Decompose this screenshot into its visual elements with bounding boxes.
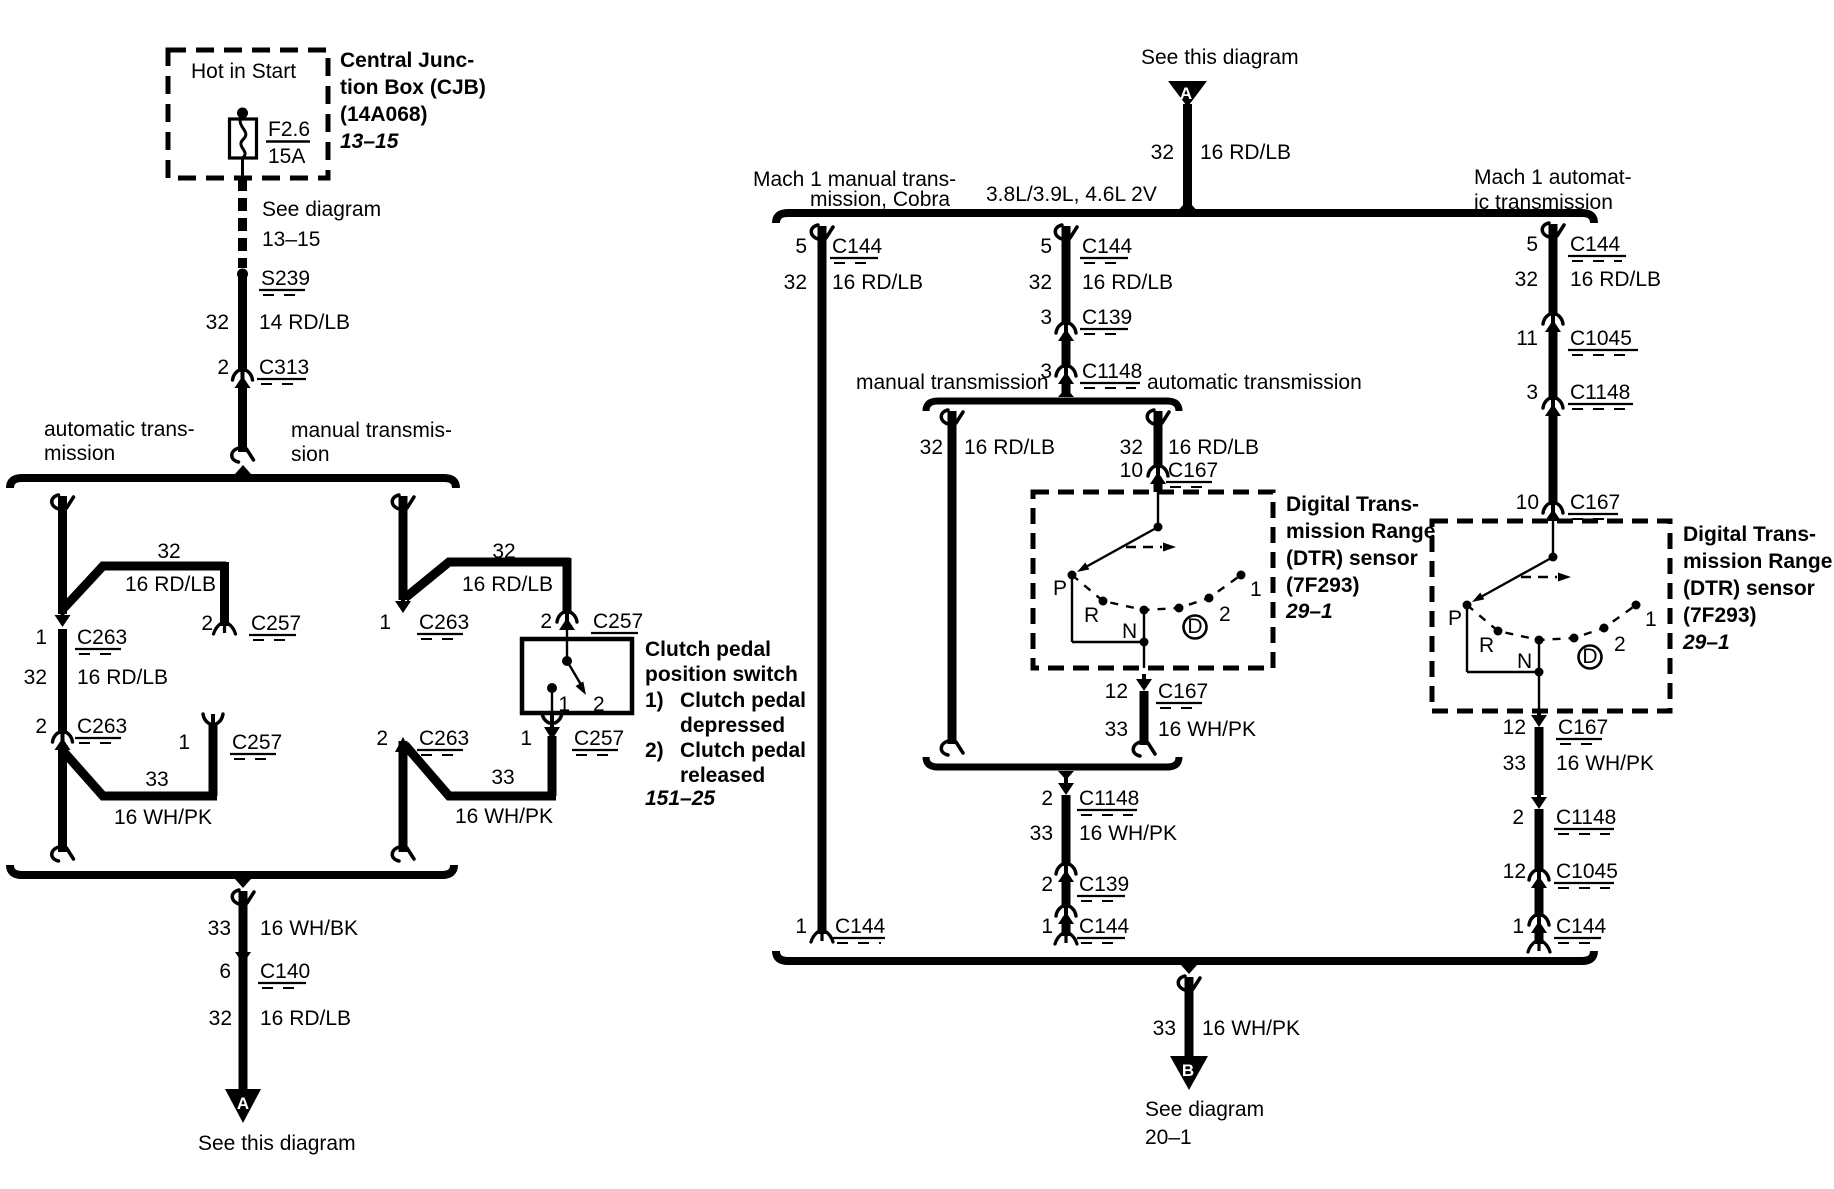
svg-text:Hot in Start: Hot in Start <box>191 60 296 83</box>
svg-text:C257: C257 <box>232 731 282 754</box>
svg-text:29–1: 29–1 <box>1682 631 1730 654</box>
svg-text:B: B <box>1182 1061 1194 1080</box>
svg-text:33: 33 <box>491 766 514 789</box>
svg-text:15A: 15A <box>268 145 305 168</box>
svg-text:C1045: C1045 <box>1570 327 1632 350</box>
svg-text:C167: C167 <box>1558 716 1608 739</box>
svg-text:13–15: 13–15 <box>340 130 399 153</box>
svg-text:Clutch pedal: Clutch pedal <box>680 689 806 712</box>
svg-text:C1148: C1148 <box>1570 381 1630 404</box>
svg-text:Digital Trans-: Digital Trans- <box>1286 493 1419 516</box>
svg-text:1: 1 <box>520 727 532 750</box>
svg-text:D: D <box>1187 615 1202 638</box>
svg-text:C144: C144 <box>1570 233 1621 256</box>
svg-text:32: 32 <box>492 540 515 563</box>
svg-text:S239: S239 <box>261 267 310 290</box>
svg-text:32: 32 <box>209 1007 232 1030</box>
svg-text:32: 32 <box>1515 268 1538 291</box>
svg-text:automatic transmission: automatic transmission <box>1147 371 1362 394</box>
svg-text:16 RD/LB: 16 RD/LB <box>1082 271 1173 294</box>
svg-text:Digital Trans-: Digital Trans- <box>1683 523 1816 546</box>
svg-text:C167: C167 <box>1158 680 1208 703</box>
svg-text:2: 2 <box>1041 873 1053 896</box>
svg-text:12: 12 <box>1105 680 1128 703</box>
svg-text:3.8L/3.9L, 4.6L 2V: 3.8L/3.9L, 4.6L 2V <box>986 183 1157 206</box>
svg-text:11: 11 <box>1516 327 1538 350</box>
svg-text:16 RD/LB: 16 RD/LB <box>125 573 216 596</box>
svg-text:1: 1 <box>379 611 391 634</box>
svg-text:32: 32 <box>1120 436 1143 459</box>
svg-text:32: 32 <box>784 271 807 294</box>
svg-text:(DTR) sensor: (DTR) sensor <box>1286 547 1418 570</box>
svg-text:1: 1 <box>1250 578 1262 601</box>
svg-text:32: 32 <box>1151 141 1174 164</box>
svg-text:32: 32 <box>24 666 47 689</box>
svg-text:C1045: C1045 <box>1556 860 1618 883</box>
svg-text:mission Range: mission Range <box>1286 520 1435 543</box>
svg-text:P: P <box>1448 607 1462 630</box>
svg-text:See this diagram: See this diagram <box>1141 46 1299 69</box>
svg-text:2: 2 <box>35 715 47 738</box>
svg-text:33: 33 <box>145 768 168 791</box>
svg-text:32: 32 <box>1029 271 1052 294</box>
svg-text:manual transmission: manual transmission <box>856 371 1049 394</box>
svg-text:Clutch pedal: Clutch pedal <box>645 638 771 661</box>
svg-text:position switch: position switch <box>645 663 798 686</box>
svg-text:32: 32 <box>920 436 943 459</box>
svg-text:(7F293): (7F293) <box>1683 604 1757 627</box>
svg-text:33: 33 <box>1105 718 1128 741</box>
svg-text:10: 10 <box>1516 491 1539 514</box>
svg-text:16 RD/LB: 16 RD/LB <box>1168 436 1259 459</box>
svg-text:C144: C144 <box>1082 235 1133 258</box>
svg-text:33: 33 <box>1153 1017 1176 1040</box>
svg-text:33: 33 <box>208 917 231 940</box>
svg-text:Central Junc-: Central Junc- <box>340 49 474 72</box>
svg-text:16 RD/LB: 16 RD/LB <box>77 666 168 689</box>
svg-text:C257: C257 <box>251 612 301 635</box>
svg-text:C144: C144 <box>1079 915 1130 938</box>
svg-text:16 WH/PK: 16 WH/PK <box>114 806 212 829</box>
svg-text:16 RD/LB: 16 RD/LB <box>260 1007 351 1030</box>
svg-text:16 RD/LB: 16 RD/LB <box>462 573 553 596</box>
svg-text:6: 6 <box>219 960 231 983</box>
svg-text:C263: C263 <box>77 715 127 738</box>
svg-text:C263: C263 <box>419 611 469 634</box>
svg-text:N: N <box>1122 620 1137 643</box>
svg-text:2: 2 <box>1614 633 1626 656</box>
svg-text:C144: C144 <box>835 915 886 938</box>
svg-text:depressed: depressed <box>680 714 785 737</box>
svg-text:2: 2 <box>593 693 605 716</box>
svg-text:A: A <box>237 1094 249 1113</box>
svg-text:33: 33 <box>1030 822 1053 845</box>
svg-text:released: released <box>680 764 765 787</box>
svg-text:automatic trans-: automatic trans- <box>44 418 195 441</box>
svg-text:12: 12 <box>1503 860 1526 883</box>
svg-text:mission Range: mission Range <box>1683 550 1832 573</box>
svg-text:16 RD/LB: 16 RD/LB <box>1570 268 1661 291</box>
svg-text:C144: C144 <box>1556 915 1607 938</box>
svg-text:sion: sion <box>291 443 330 466</box>
svg-text:5: 5 <box>1040 235 1052 258</box>
svg-text:R: R <box>1084 604 1099 627</box>
svg-text:C1148: C1148 <box>1556 806 1616 829</box>
svg-text:C140: C140 <box>260 960 310 983</box>
svg-text:C313: C313 <box>259 356 309 379</box>
svg-text:C139: C139 <box>1082 306 1132 329</box>
svg-text:D: D <box>1582 645 1597 668</box>
svg-text:33: 33 <box>1503 752 1526 775</box>
svg-text:29–1: 29–1 <box>1285 600 1333 623</box>
svg-text:2): 2) <box>645 739 664 762</box>
svg-text:1: 1 <box>35 626 47 649</box>
svg-text:2: 2 <box>1041 787 1053 810</box>
svg-text:16 WH/PK: 16 WH/PK <box>1079 822 1177 845</box>
svg-text:mission: mission <box>44 442 115 465</box>
svg-text:A: A <box>1180 84 1192 103</box>
svg-text:2: 2 <box>376 727 388 750</box>
svg-text:1: 1 <box>558 693 570 716</box>
svg-text:See diagram: See diagram <box>262 198 381 221</box>
svg-text:See diagram: See diagram <box>1145 1098 1264 1121</box>
svg-text:16 RD/LB: 16 RD/LB <box>1200 141 1291 164</box>
svg-text:C167: C167 <box>1168 459 1218 482</box>
svg-text:5: 5 <box>795 235 807 258</box>
svg-text:2: 2 <box>1219 603 1231 626</box>
svg-text:F2.6: F2.6 <box>268 118 310 141</box>
svg-text:(DTR) sensor: (DTR) sensor <box>1683 577 1815 600</box>
svg-text:C263: C263 <box>77 626 127 649</box>
svg-text:(14A068): (14A068) <box>340 103 428 126</box>
svg-text:mission, Cobra: mission, Cobra <box>810 188 950 211</box>
svg-text:C144: C144 <box>832 235 883 258</box>
svg-text:16 WH/PK: 16 WH/PK <box>1158 718 1256 741</box>
svg-text:C257: C257 <box>574 727 624 750</box>
svg-text:14 RD/LB: 14 RD/LB <box>259 311 350 334</box>
svg-text:C1148: C1148 <box>1079 787 1139 810</box>
svg-text:12: 12 <box>1503 716 1526 739</box>
svg-text:16 RD/LB: 16 RD/LB <box>964 436 1055 459</box>
svg-text:32: 32 <box>157 540 180 563</box>
svg-text:2: 2 <box>201 612 213 635</box>
svg-text:16 WH/PK: 16 WH/PK <box>455 805 553 828</box>
svg-text:Clutch pedal: Clutch pedal <box>680 739 806 762</box>
svg-text:16 WH/PK: 16 WH/PK <box>1202 1017 1300 1040</box>
svg-text:20–1: 20–1 <box>1145 1126 1192 1149</box>
svg-text:(7F293): (7F293) <box>1286 574 1360 597</box>
svg-text:151–25: 151–25 <box>645 787 715 810</box>
svg-text:manual transmis-: manual transmis- <box>291 419 452 442</box>
svg-text:1: 1 <box>1041 915 1053 938</box>
svg-text:1: 1 <box>178 731 190 754</box>
svg-text:Mach 1 automat-: Mach 1 automat- <box>1474 166 1632 189</box>
svg-text:3: 3 <box>1526 381 1538 404</box>
svg-text:C1148: C1148 <box>1082 360 1142 383</box>
svg-text:C263: C263 <box>419 727 469 750</box>
svg-text:2: 2 <box>1512 806 1524 829</box>
svg-text:16 WH/BK: 16 WH/BK <box>260 917 358 940</box>
svg-text:5: 5 <box>1526 233 1538 256</box>
svg-text:1): 1) <box>645 689 664 712</box>
svg-text:16 WH/PK: 16 WH/PK <box>1556 752 1654 775</box>
svg-text:C167: C167 <box>1570 491 1620 514</box>
svg-text:See this diagram: See this diagram <box>198 1132 356 1155</box>
svg-text:tion Box (CJB): tion Box (CJB) <box>340 76 486 99</box>
svg-text:2: 2 <box>540 610 552 633</box>
svg-text:1: 1 <box>1645 608 1657 631</box>
svg-text:10: 10 <box>1120 459 1143 482</box>
svg-text:16 RD/LB: 16 RD/LB <box>832 271 923 294</box>
svg-text:32: 32 <box>206 311 229 334</box>
svg-text:P: P <box>1053 577 1067 600</box>
svg-text:C139: C139 <box>1079 873 1129 896</box>
svg-text:C257: C257 <box>593 610 643 633</box>
svg-text:N: N <box>1517 650 1532 673</box>
svg-text:R: R <box>1479 634 1494 657</box>
svg-text:13–15: 13–15 <box>262 228 320 251</box>
svg-text:2: 2 <box>217 356 229 379</box>
svg-text:3: 3 <box>1040 306 1052 329</box>
svg-text:1: 1 <box>795 915 807 938</box>
svg-text:1: 1 <box>1512 915 1524 938</box>
